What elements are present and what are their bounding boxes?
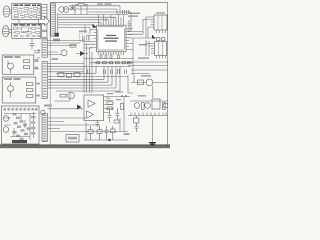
label net top <box>97 3 112 4</box>
module C title <box>4 56 21 58</box>
op-amp U4B <box>87 111 94 118</box>
IC U1 box <box>97 25 127 52</box>
module A capacitor row <box>18 11 40 13</box>
wire power bus top <box>130 100 168 102</box>
resistor R41 <box>97 126 102 140</box>
capacitor C24 <box>135 116 139 132</box>
wire top bus 5 <box>58 21 101 23</box>
resistor R6 <box>58 73 64 77</box>
resistor column module E <box>31 116 35 134</box>
module C box <box>2 55 34 74</box>
wire riser bank <box>75 6 124 22</box>
diode D6 dark <box>77 105 82 110</box>
wire module D stubs <box>36 84 40 96</box>
connector CN3 strip <box>42 62 48 99</box>
junction arrow A2 <box>152 35 156 39</box>
transistor Q5 <box>61 50 67 56</box>
module A box <box>12 4 41 20</box>
wire top bus 1 <box>69 6 120 14</box>
module A title text <box>14 5 41 7</box>
wire vertical x133 <box>132 38 134 75</box>
frame top border <box>50 2 168 4</box>
wire power pin row <box>128 113 168 116</box>
module A resistor row <box>14 7 38 9</box>
connector P1 cable oval <box>3 6 12 17</box>
wire fan h6 <box>48 66 116 88</box>
wire top bus 3 <box>58 17 116 22</box>
capacitor C20 <box>128 20 131 29</box>
junction dots U4 <box>121 95 127 97</box>
resistor R12 <box>24 60 30 63</box>
resistor R22 <box>134 118 139 123</box>
resistor R43 <box>114 120 119 123</box>
IC U2 left pins <box>151 17 155 27</box>
module D box <box>2 77 36 103</box>
wire bottom mid verticals <box>86 97 124 141</box>
connector CN2 strip <box>42 38 48 57</box>
capacitor group C5 dashed box <box>79 31 90 42</box>
wire top bus 4 <box>58 20 109 22</box>
wire right bus r2 <box>128 37 157 39</box>
capacitor C4 below module B <box>30 39 35 50</box>
module E box <box>1 106 39 144</box>
capacitor C30 <box>108 110 112 123</box>
regulator VR1 box <box>152 99 160 109</box>
relay K1 contact boxes <box>42 24 47 37</box>
wire top bus 7 <box>58 27 90 33</box>
capacitor C31 <box>116 108 120 121</box>
wire fan h2 <box>48 75 128 77</box>
wire d5 net <box>76 53 88 55</box>
frame bottom line <box>0 144 170 146</box>
comparator U4 box <box>84 95 104 121</box>
wire top bus 6 <box>58 25 93 28</box>
connector P2 cable oval <box>2 26 12 37</box>
label relay text <box>141 75 151 76</box>
module B component row 2 <box>16 31 40 34</box>
transistor Q8 <box>8 83 14 98</box>
connector CN4 strip <box>42 114 48 142</box>
module E name plate <box>12 140 27 143</box>
IC U2 top label <box>156 12 165 13</box>
transistor Q12 <box>163 103 168 108</box>
capacitor bank C10 <box>88 69 127 74</box>
label U3 nets <box>138 44 149 59</box>
resistor R15 <box>27 89 33 92</box>
IC U1 right pin comb <box>126 29 129 50</box>
wire relay net <box>131 75 168 98</box>
transformer T1 <box>59 7 69 13</box>
resistor R30 <box>107 102 113 105</box>
wire cn4 nets <box>48 118 101 129</box>
IC U2 box <box>154 15 167 30</box>
wire right bus r4 <box>131 70 168 74</box>
wire long bottom bus <box>50 131 128 133</box>
wire U1 left nets <box>84 30 94 48</box>
frame right border <box>167 3 169 145</box>
IC U3 bottom pins <box>157 56 166 59</box>
resistor R9 <box>60 94 66 97</box>
wire top bus 1b <box>64 9 117 15</box>
label CN1 value <box>53 39 60 42</box>
IC U1 top pin comb <box>99 22 124 25</box>
wire mid right vertical <box>128 75 133 93</box>
capacitor C22 C23 above U3 <box>157 38 165 41</box>
capacitor C21 <box>128 30 131 32</box>
ground G1 <box>149 143 156 145</box>
junction arrow A1 <box>93 24 98 28</box>
capacitor C2 <box>123 10 129 14</box>
resistor R32 <box>121 104 124 110</box>
wire strip drop <box>57 13 59 33</box>
resistor R16 <box>27 95 33 98</box>
connector J2 strip <box>42 4 47 19</box>
wire fan h4 <box>48 66 108 82</box>
label U4 right <box>106 98 121 101</box>
resistor R13 <box>24 66 30 69</box>
wire ground drop <box>152 116 154 144</box>
wire center crosslinks <box>84 25 94 48</box>
frame bottom dark band <box>0 145 170 148</box>
module E top pin row <box>4 108 38 110</box>
label U4 nets <box>107 91 123 94</box>
wire cn3 nets <box>48 64 85 72</box>
capacitor C40 <box>105 126 109 140</box>
transistor Q20 <box>3 116 9 122</box>
wire fan h5 <box>48 66 112 85</box>
wire U2 nets <box>143 17 151 38</box>
wire top bus 1c <box>88 12 131 31</box>
wire module C top arrows <box>34 50 40 53</box>
wire mid bus 2 <box>84 66 131 68</box>
capacitor C1 dark body <box>55 33 59 37</box>
wire U1 right nets <box>129 29 133 50</box>
label cluster <box>138 95 146 96</box>
label CN3 <box>44 104 52 106</box>
module B component row 3 <box>14 35 41 36</box>
IC U1 pin number texture <box>97 26 125 50</box>
transistor Q7 <box>8 61 14 73</box>
diode ladder module E <box>13 113 31 140</box>
transistor Q21 <box>3 127 9 133</box>
transistor Q11 <box>145 103 151 109</box>
op-amp U4A <box>88 100 95 107</box>
resistor chain R10 <box>90 62 133 64</box>
wire cn2 nets <box>48 41 85 55</box>
IC U3 box <box>155 42 167 56</box>
resistor R1 <box>75 4 88 6</box>
resistor R42 <box>111 126 116 140</box>
frame left border <box>49 3 51 145</box>
resistor R20 <box>142 103 145 110</box>
transistor Q10 <box>134 103 140 109</box>
crystal Y1 box <box>66 135 79 143</box>
wire lower mid <box>48 92 84 109</box>
IC U1 name text <box>104 35 119 42</box>
resistor R31 <box>107 107 113 110</box>
module D title <box>4 78 21 80</box>
resistor R14 <box>27 83 33 86</box>
wire module C stubs <box>34 58 40 69</box>
wire U4 right pins <box>104 97 131 113</box>
module B box <box>12 23 41 38</box>
wire top bus 2 <box>58 14 128 16</box>
label bottom <box>124 133 130 135</box>
module A diode row <box>15 15 37 17</box>
IC U1 bottom pin comb <box>99 52 124 55</box>
wire right bus r3 <box>128 62 168 66</box>
wire U3 left nets <box>146 40 151 56</box>
label module D pins <box>37 83 40 97</box>
wire fan h7 <box>56 66 120 91</box>
transistor Q6 <box>68 92 75 99</box>
module B component row 1 <box>14 27 36 31</box>
diode D5 dark <box>80 51 85 56</box>
resistor R40 <box>88 126 93 140</box>
wire vertical left bus <box>84 38 92 93</box>
resistor comb R17 <box>100 55 120 58</box>
module B title text <box>14 24 41 26</box>
lamp L1 <box>41 110 45 114</box>
wire module E mesh <box>4 112 36 140</box>
label U2 text <box>128 13 140 17</box>
wire right bus r1 <box>128 31 143 34</box>
resistor R7 <box>67 73 72 77</box>
wire mid bus 1 <box>84 58 133 60</box>
wire fan h3 <box>48 66 104 79</box>
label module C pin <box>35 59 38 68</box>
IC U1 left pin comb <box>94 30 97 48</box>
bus arrow W1 <box>39 17 50 26</box>
junction J dark <box>108 139 110 141</box>
wire bottom bus <box>84 139 128 141</box>
IC U3 left pins <box>151 44 155 54</box>
resistor R8 <box>74 73 80 77</box>
motor M1 <box>146 79 153 86</box>
diode D20 <box>138 80 144 85</box>
IC U2 bottom pins <box>157 30 166 33</box>
wire module A-B link <box>18 20 20 24</box>
transistor Q1 <box>71 5 75 11</box>
resistor R5 <box>70 45 76 48</box>
resistor R21 <box>163 103 166 110</box>
connector CN1 strip <box>51 4 56 36</box>
label net mid <box>52 58 59 60</box>
capacitor C41 <box>96 120 100 127</box>
wire fan h1 <box>56 66 96 74</box>
